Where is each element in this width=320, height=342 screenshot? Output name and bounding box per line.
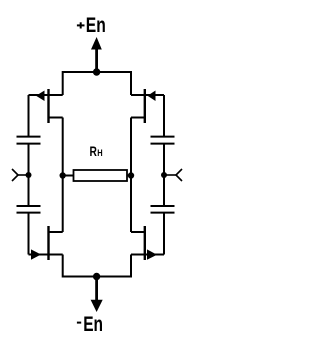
wire left column upper [28, 95, 30, 137]
label -En [77, 312, 103, 336]
junction dot right column [161, 172, 167, 178]
junction dot resistor left [60, 172, 66, 178]
terminal fork right [164, 169, 182, 181]
wire left rail upper [62, 118, 64, 176]
junction dot resistor right [128, 172, 134, 178]
wire left column middle [28, 144, 30, 206]
transistor Q2 top-right [131, 89, 164, 123]
transistor Q4 bottom-right [131, 226, 164, 260]
top supply arrow [91, 37, 102, 72]
capacitor C1 [17, 137, 41, 144]
wire left column lower [28, 213, 30, 255]
svg-text:En: En [83, 312, 103, 336]
wire right column upper [163, 95, 165, 137]
transistor Q3 bottom-left [29, 226, 63, 260]
wire top rail [63, 72, 131, 95]
transistor Q1 top-left [29, 89, 63, 123]
label RH [90, 143, 103, 159]
junction dot bottom rail [93, 273, 100, 280]
bottom supply arrow [91, 277, 103, 313]
capacitor C2 [17, 206, 41, 213]
wire right rail upper [130, 118, 132, 176]
terminal fork left [12, 169, 29, 181]
wire right column middle [163, 144, 165, 206]
wire right rail lower [130, 176, 132, 233]
capacitor C4 [151, 206, 175, 213]
wire left rail lower [62, 176, 64, 233]
svg-text:H: H [97, 148, 102, 159]
label +En [77, 13, 106, 37]
resistor RH body [63, 170, 131, 181]
junction dot top rail [93, 68, 100, 75]
junction dot left column [26, 172, 32, 178]
svg-text:En: En [86, 13, 106, 37]
svg-text:R: R [90, 143, 97, 159]
capacitor C3 [151, 137, 175, 144]
wire bottom rail [63, 255, 131, 277]
wire right column lower [163, 213, 165, 255]
